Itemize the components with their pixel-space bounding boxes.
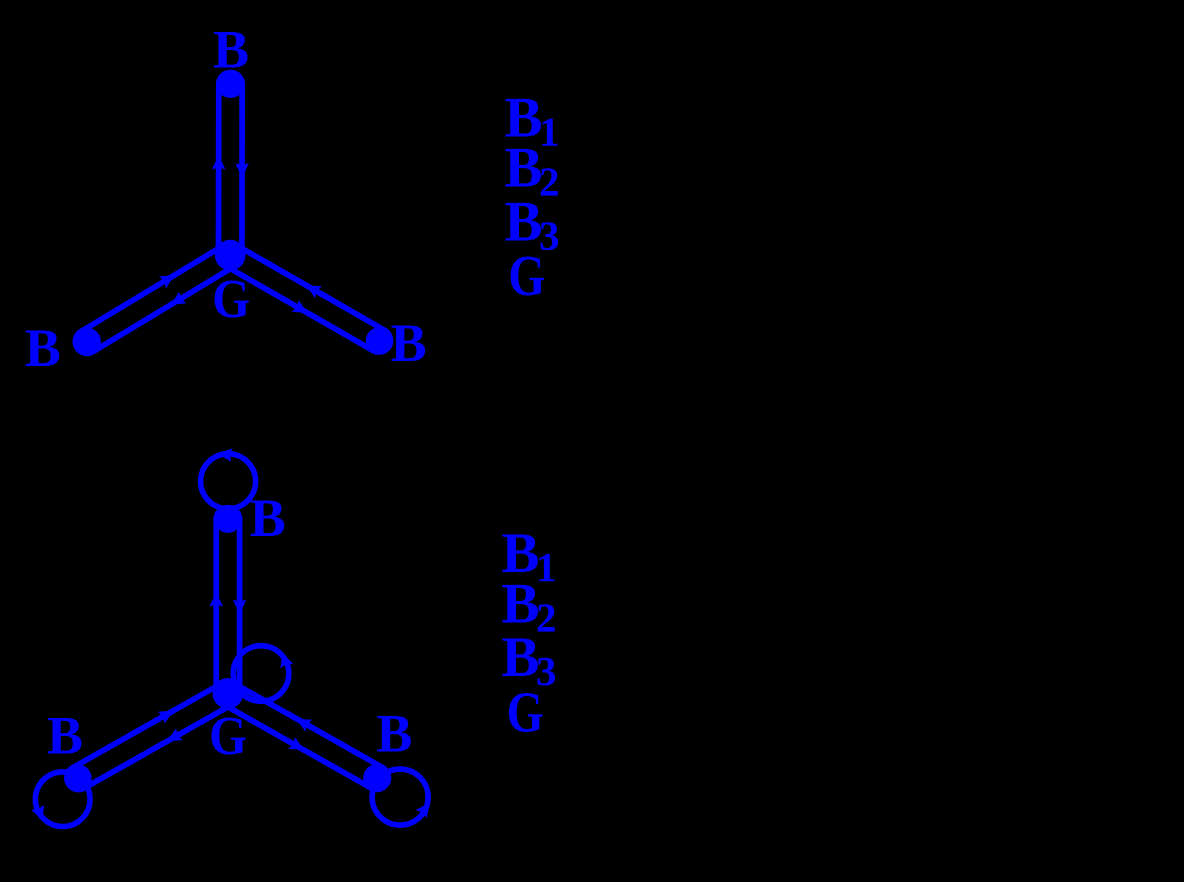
node B top (diagram 1) xyxy=(217,70,245,98)
node G (diagram 2) xyxy=(213,678,244,709)
svg-text:G: G xyxy=(212,268,250,329)
self-loop at B lower-left (diagram 2) xyxy=(35,772,90,827)
arrow B to G up-right (diagram 1 left edge, NW line) xyxy=(159,275,175,288)
self-loop at B lower-right (diagram 2) xyxy=(372,769,428,825)
svg-text:B: B xyxy=(213,20,249,80)
svg-text:G: G xyxy=(507,679,544,744)
arrow B to G down (diagram 2 top edge, east line) xyxy=(233,600,247,614)
svg-text:B: B xyxy=(47,706,83,766)
svg-text:B: B xyxy=(391,313,427,373)
arrow G to B down-left (diagram 2 left edge, SE line) xyxy=(167,728,183,741)
svg-text:G: G xyxy=(508,243,545,308)
self-loop at G (diagram 2) xyxy=(233,646,289,702)
arrow G to B down-right (diagram 1 right edge, SW line) xyxy=(292,300,308,313)
svg-text:G: G xyxy=(209,705,247,766)
edge pair G-B lower-right (diagram 1) xyxy=(224,245,390,352)
arrow G to B up (diagram 2 top edge, west line) xyxy=(209,592,223,606)
node B lower-left (diagram 2) xyxy=(66,765,92,791)
edge pair G-B lower-left (diagram 1) xyxy=(75,245,236,353)
self-loop at B top (diagram 2) xyxy=(201,454,256,509)
arrow B to G up-right (diagram 2 left edge, NW line) xyxy=(158,711,174,724)
node G (diagram 1) xyxy=(215,240,246,271)
edge pair G-B top (diagram 1) xyxy=(219,73,243,256)
node B lower-left (diagram 1) xyxy=(73,328,101,356)
edge pair G-B lower-left (diagram 2) xyxy=(67,683,234,789)
arrow G to B down-left (diagram 1 left edge, SE line) xyxy=(171,292,187,305)
svg-text:B: B xyxy=(25,318,61,378)
node B top (diagram 2) xyxy=(214,506,241,533)
svg-text:B: B xyxy=(376,704,412,764)
node B lower-right (diagram 1) xyxy=(366,327,394,355)
arrow B to G down (diagram 1 top edge, east line) xyxy=(235,163,249,177)
node B lower-right (diagram 2) xyxy=(363,764,390,791)
arrow B to G up-left (diagram 1 right edge, NE line) xyxy=(306,285,322,298)
arrow G to B up (diagram 1 top edge, west line) xyxy=(212,155,226,169)
arrow G to B down-right (diagram 2 right edge, SW line) xyxy=(288,737,304,750)
edge pair G-B top (diagram 2) xyxy=(216,508,239,694)
edge pair G-B lower-right (diagram 2) xyxy=(222,683,388,789)
arrow B to G up-left (diagram 2 right edge, NE line) xyxy=(297,719,313,732)
svg-text:B: B xyxy=(250,488,286,548)
